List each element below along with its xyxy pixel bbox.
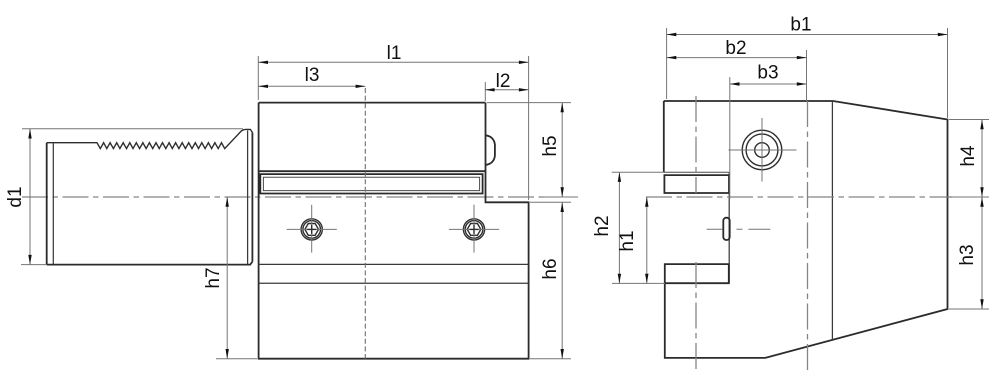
centerline main axis left view [22, 196, 578, 198]
dimension h1 [617, 197, 648, 283]
svg-text:b1: b1 [790, 15, 811, 36]
shank lip front face [248, 130, 253, 264]
svg-text:l2: l2 [496, 71, 511, 92]
shank left face second line [52, 143, 54, 264]
svg-text:b2: b2 [725, 38, 746, 59]
svg-text:h2: h2 [592, 215, 613, 236]
svg-text:h7: h7 [203, 267, 224, 288]
screw S1 [287, 205, 337, 253]
shank cylinder outline [47, 129, 253, 264]
dimension l1 [258, 43, 528, 200]
svg-text:h1: h1 [617, 230, 638, 251]
dimension b2 [667, 38, 807, 101]
centerline main axis right view [646, 196, 989, 198]
dimension h5 [487, 103, 571, 197]
dimension b3 [730, 63, 807, 200]
svg-text:d1: d1 [5, 186, 26, 207]
body outline right view [664, 101, 948, 358]
clamp block bottom edge [259, 170, 486, 172]
clamp pin [707, 218, 771, 240]
dimension h3 [949, 197, 989, 309]
dimension d1 [5, 129, 243, 265]
svg-text:l3: l3 [305, 65, 320, 86]
dimension l3 [258, 65, 365, 88]
lower seat plate [665, 264, 729, 283]
dimension h6 [530, 202, 571, 358]
screw S2 [449, 205, 499, 253]
vertical centerline tool axis [807, 101, 809, 371]
svg-text:h5: h5 [540, 135, 561, 156]
body main block left view [259, 103, 529, 359]
vertical centerline slot axis [695, 96, 697, 193]
bottom seat band lines [259, 264, 529, 283]
svg-text:b3: b3 [757, 63, 778, 84]
notch inner face [728, 172, 730, 283]
svg-text:h6: h6 [540, 258, 561, 279]
svg-text:h3: h3 [957, 244, 978, 265]
clamp slot outer [260, 174, 482, 193]
clamp slot inner [263, 177, 479, 190]
svg-text:l1: l1 [387, 43, 402, 64]
notch bottom extension [612, 282, 665, 284]
dimension h2 [592, 172, 621, 283]
screw boss right view [728, 118, 796, 182]
notch top face [612, 171, 664, 173]
dimension l2 [485, 71, 529, 101]
dimension b1 [667, 15, 948, 119]
side bump on right face [486, 135, 495, 165]
dimension h4 [949, 120, 989, 198]
front face crease line [831, 101, 833, 340]
upper seat plate [664, 175, 729, 193]
dimension h7 [203, 197, 257, 359]
svg-text:h4: h4 [958, 145, 979, 167]
hidden extension line from l3 [364, 88, 366, 359]
